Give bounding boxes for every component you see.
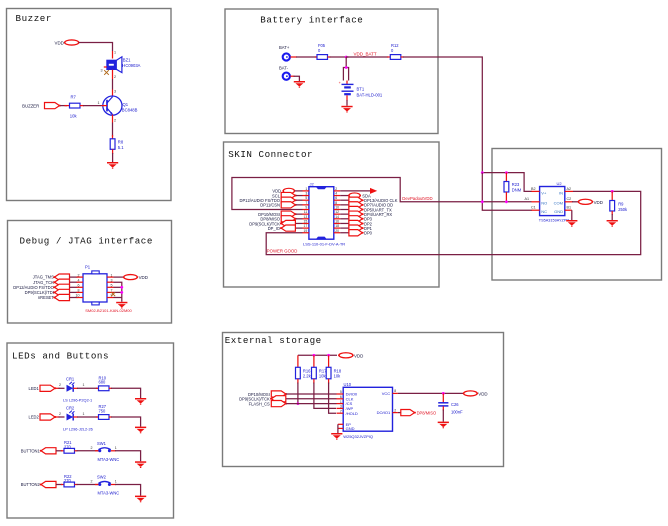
- svg-text:DevPadoutVDD: DevPadoutVDD: [402, 196, 432, 201]
- junction (rail R18): [327, 354, 330, 357]
- svg-text:DNM: DNM: [512, 187, 522, 192]
- resistor R18 10k: [326, 355, 342, 413]
- svg-text:10: 10: [76, 294, 80, 298]
- ground (JTAG): [116, 302, 127, 309]
- pin 2 of BZ1: [113, 70, 117, 79]
- svg-text:6: 6: [78, 284, 80, 288]
- port DP9(SCLK)/TDI with pin 8 of P1: [25, 289, 83, 296]
- wire R8 to ground: [112, 149, 114, 162]
- svg-text:U10: U10: [344, 382, 352, 387]
- port DP5/UART_TX (SKIN): [340, 206, 392, 212]
- part number label of U2: [539, 219, 570, 223]
- svg-text:2: 2: [78, 273, 80, 277]
- svg-text:B2: B2: [531, 187, 536, 191]
- pin 9 of J2: [303, 206, 309, 210]
- svg-text:680: 680: [99, 380, 107, 385]
- port DP0 (SKIN): [340, 230, 372, 236]
- svg-text:POWER GOOD: POWER GOOD: [267, 248, 298, 253]
- pin 3 of J2: [303, 192, 309, 196]
- pin 1 of P1: [107, 273, 114, 277]
- svg-text:1: 1: [340, 400, 342, 404]
- svg-text:SKIN Connector: SKIN Connector: [228, 149, 313, 160]
- pin 8 of U10 (VCC): [393, 389, 398, 393]
- pin 5 of P1: [107, 284, 114, 288]
- svg-text:5: 5: [340, 390, 342, 394]
- sheet box: External storage: [223, 333, 504, 467]
- port DP12/AUDIO FS/TDO with pin 6 of P1: [13, 284, 83, 291]
- sheet box: Battery interface: [225, 9, 438, 134]
- sheet box: Buzzer: [7, 9, 172, 201]
- port DP8/MISO (flash): [401, 410, 436, 416]
- no-ERC cross (JTAG pin9): [111, 292, 115, 296]
- port FLASH_CS (flash): [249, 401, 337, 407]
- svg-text:15: 15: [304, 219, 308, 223]
- LED CR2 LP L296-J2L2-26: [63, 405, 93, 431]
- svg-text:10k: 10k: [319, 374, 327, 379]
- svg-text:1: 1: [83, 412, 85, 416]
- resistor R16 2.2k: [296, 355, 312, 403]
- net label VDD_BATT: [354, 51, 377, 56]
- svg-text:3: 3: [101, 68, 103, 72]
- port nRESET with pin 10 of P1: [38, 294, 83, 301]
- port DP10/MOSI (flash): [248, 391, 337, 397]
- part number label of J2: [303, 241, 345, 246]
- port DP3 (SKIN): [340, 216, 372, 222]
- pin 4 of J2: [334, 192, 340, 196]
- svg-text:13: 13: [304, 215, 308, 219]
- wire junction to R12: [346, 56, 390, 58]
- svg-text:Battery interface: Battery interface: [260, 14, 363, 25]
- wire Q1 emitter to R8: [112, 123, 114, 139]
- wire R22 to SW2: [75, 480, 99, 485]
- resistor R23 DNM: [504, 173, 522, 202]
- svg-text:A2: A2: [567, 187, 572, 191]
- pin 14 of J2: [334, 215, 340, 219]
- port DP2 (SKIN): [340, 220, 372, 226]
- svg-text:8: 8: [335, 201, 337, 205]
- svg-text:LED2: LED2: [29, 415, 40, 420]
- port DP11/CSN (SKIN): [260, 202, 302, 208]
- svg-text:GND: GND: [346, 426, 355, 431]
- junction (JTAG pin7): [120, 291, 123, 294]
- wire VDD_BATT down to A1/C1 nets: [482, 173, 532, 211]
- junction (R9 top): [611, 190, 614, 193]
- sheet box: SKIN Connector: [224, 142, 440, 287]
- port LED2: [29, 414, 57, 420]
- svg-text:11: 11: [304, 210, 308, 214]
- wire DO/IO1 to port: [398, 412, 401, 414]
- svg-text:2: 2: [114, 75, 116, 79]
- pin 3 collector of Q1: [113, 90, 117, 97]
- svg-text:LEDs and Buttons: LEDs and Buttons: [12, 351, 109, 362]
- ground (LED2): [135, 427, 146, 434]
- power port VDD (flash): [463, 391, 488, 397]
- svg-text:2: 2: [59, 412, 61, 416]
- svg-text:TS5A3159AYZPR: TS5A3159AYZPR: [539, 219, 570, 223]
- svg-text:1: 1: [111, 273, 113, 277]
- wire BZ1 to Q1 collector: [112, 79, 114, 90]
- switch SW2 MTA3-WNC: [97, 475, 119, 496]
- ground (buzzer): [107, 162, 118, 169]
- switch SW1 MTA3-WNC: [97, 441, 119, 462]
- pin 6 of U10: [337, 395, 344, 399]
- svg-text:/HOLD: /HOLD: [346, 411, 358, 416]
- wire BAT- to ground: [290, 76, 299, 81]
- svg-text:DP_IO: DP_IO: [268, 226, 280, 231]
- pin C2 of U2 to VDD: [565, 197, 579, 202]
- net label DevPadoutVDD: [402, 196, 432, 201]
- svg-text:2: 2: [91, 446, 93, 450]
- wire R12 to analog switch box: [401, 57, 483, 173]
- svg-text:7: 7: [340, 409, 342, 413]
- flash chip U10 W25Q32JVZPIQ: [343, 382, 392, 431]
- pin 3 of BZ1 with no-ERC cross: [101, 67, 109, 75]
- svg-text:7: 7: [305, 201, 307, 205]
- port LED1: [29, 385, 57, 391]
- wire BAT+ to F05: [290, 56, 318, 58]
- power port VDD (buzzer): [55, 40, 80, 45]
- svg-text:U2: U2: [557, 181, 563, 186]
- svg-text:C1: C1: [531, 206, 536, 210]
- svg-text:10: 10: [335, 206, 339, 210]
- svg-text:1: 1: [115, 446, 117, 450]
- pin 6 of J2: [334, 196, 340, 200]
- svg-text:C26: C26: [451, 402, 459, 407]
- svg-text:BUTTON2: BUTTON2: [21, 482, 41, 487]
- svg-text:P1: P1: [85, 265, 91, 270]
- svg-text:MTA3-WNC: MTA3-WNC: [98, 457, 120, 462]
- svg-text:100nF: 100nF: [451, 410, 463, 415]
- wire VDD pull-up rail: [298, 354, 337, 356]
- pin 3 of P1: [107, 278, 114, 282]
- svg-text:Buzzer: Buzzer: [16, 13, 52, 24]
- svg-text:2: 2: [91, 480, 93, 484]
- svg-text:VDD: VDD: [354, 353, 363, 358]
- svg-text:BC848B: BC848B: [122, 108, 138, 113]
- power port VDD (analog switch): [578, 199, 603, 205]
- svg-text:17: 17: [304, 224, 308, 228]
- junction (rail R17): [313, 354, 316, 357]
- svg-text:External storage: External storage: [225, 335, 322, 346]
- connector P1: [83, 265, 107, 305]
- svg-text:9: 9: [305, 206, 307, 210]
- svg-text:270: 270: [64, 478, 72, 483]
- pin 18 of J2: [334, 224, 340, 228]
- pin 2 of J2: [334, 187, 340, 191]
- port DP13/AUDIO CLK (SKIN): [340, 197, 398, 203]
- svg-text:W25Q32JVZPIQ: W25Q32JVZPIQ: [343, 434, 373, 439]
- wire BUTTON1 to R21: [56, 450, 64, 452]
- svg-text:BZ1: BZ1: [123, 57, 131, 62]
- junction (JTAG pin5): [120, 286, 123, 289]
- junction (R23 top): [505, 171, 508, 174]
- connector BAT+: [279, 45, 290, 61]
- wire SW1 to ground: [111, 446, 141, 461]
- svg-text:250k: 250k: [618, 207, 628, 212]
- svg-text:SM02-B2101-KAN-02M00: SM02-B2101-KAN-02M00: [85, 308, 132, 313]
- pin 11 of J2: [303, 210, 309, 214]
- op IC U2 TS5A3159AYZPR analog switch: [540, 181, 565, 215]
- pin 19 of J2: [303, 229, 309, 233]
- svg-text:5: 5: [305, 196, 307, 200]
- port JTAG_TMS with pin 2 of P1: [33, 273, 83, 280]
- svg-text:3: 3: [340, 405, 342, 409]
- svg-text:DP8/MISO: DP8/MISO: [417, 410, 437, 415]
- port DP9(SCLK)/TCK (flash): [239, 396, 336, 402]
- wire pin1 to VDD (JTAG): [114, 276, 124, 278]
- svg-text:VDD: VDD: [594, 200, 603, 205]
- wire VDD_BATT to BT1: [343, 57, 348, 84]
- off-sheet arrow (pin 2 of J2): [340, 188, 377, 194]
- junction (FLASH_CS pull-up): [297, 402, 300, 405]
- connector J2 LSS-110-01-F-DV-A-TR: [309, 181, 334, 239]
- svg-text:Q1: Q1: [123, 102, 129, 107]
- part number label of P1: [85, 308, 132, 313]
- connector BAT-: [279, 66, 290, 80]
- fuse F05 0: [317, 43, 328, 59]
- pin 5 of U10: [337, 390, 344, 394]
- svg-text:2: 2: [59, 383, 61, 387]
- port DP_IO (SKIN): [268, 225, 303, 231]
- power port VDD (pull-ups): [338, 353, 363, 359]
- svg-text:VCC: VCC: [382, 391, 391, 396]
- svg-text:18: 18: [335, 224, 339, 228]
- junction (A1 net): [481, 200, 484, 203]
- svg-text:1: 1: [305, 187, 307, 191]
- svg-text:2: 2: [335, 187, 337, 191]
- junction (C26 top): [442, 392, 445, 395]
- pin 16 of J2: [334, 219, 340, 223]
- port SDA (SKIN): [340, 193, 371, 198]
- pin 10 of J2: [334, 206, 340, 210]
- pin B1 of U2 to ground: [565, 206, 572, 220]
- pin 2 emitter of Q1: [113, 115, 117, 123]
- svg-text:MTA3-WNC: MTA3-WNC: [98, 491, 120, 496]
- svg-text:BT1: BT1: [357, 86, 365, 91]
- wire R7 to Q1 base: [80, 105, 102, 107]
- svg-text:R9: R9: [618, 201, 624, 206]
- svg-text:12: 12: [335, 210, 339, 214]
- port DP1 (SKIN): [340, 225, 372, 231]
- ground (U2): [566, 220, 577, 227]
- port BUZZER: [22, 103, 61, 109]
- wire JTAG ground bus: [114, 282, 122, 302]
- battery BT1 BAT-HLD-001: [339, 81, 383, 98]
- pin 2 of U10 (DO/IO1): [393, 408, 398, 412]
- port JTAG_TCK with pin 4 of P1: [33, 278, 83, 285]
- svg-text:B1: B1: [567, 206, 572, 210]
- svg-text:1: 1: [114, 51, 116, 55]
- svg-text:270: 270: [64, 444, 72, 449]
- ground (R9): [607, 220, 618, 227]
- svg-text:3: 3: [111, 278, 113, 282]
- svg-text:VDD: VDD: [478, 391, 487, 396]
- pin 1 base of Q1: [97, 101, 107, 106]
- svg-text:3: 3: [114, 90, 116, 94]
- pin 1 of U10: [337, 400, 344, 404]
- resistor R27 750: [99, 404, 110, 419]
- svg-text:5.1: 5.1: [118, 145, 124, 150]
- svg-text:C2: C2: [567, 197, 572, 201]
- pin 1 of J2: [303, 187, 309, 191]
- wire R10 to ground: [109, 388, 141, 398]
- wire LED1 to CR1: [56, 383, 65, 388]
- ground (U10): [331, 433, 342, 440]
- port DP8/MISO (SKIN): [260, 216, 302, 222]
- pin 15 of J2: [303, 219, 309, 223]
- svg-text:19: 19: [304, 229, 308, 233]
- wire BT1 to ground: [346, 95, 348, 106]
- svg-text:IN: IN: [559, 191, 563, 196]
- port BUTTON2: [21, 481, 56, 487]
- svg-text:6: 6: [340, 395, 342, 399]
- svg-text:V+: V+: [541, 191, 547, 196]
- svg-text:R7: R7: [71, 94, 77, 99]
- wire CR2 to R27: [73, 412, 98, 417]
- svg-text:FLASH_CS: FLASH_CS: [249, 401, 270, 406]
- junction (BT1 feed): [345, 66, 348, 69]
- svg-text:LP L296-J2L2-26: LP L296-J2L2-26: [63, 427, 93, 432]
- svg-text:GND: GND: [554, 209, 563, 214]
- svg-text:8: 8: [394, 389, 396, 393]
- transistor Q1 BC848B: [103, 96, 138, 115]
- svg-text:LSS-110-01-F-DV-A-TR: LSS-110-01-F-DV-A-TR: [303, 241, 345, 246]
- svg-text:A1: A1: [525, 197, 530, 201]
- pin 7 of U10: [337, 409, 344, 413]
- svg-text:BUZZER: BUZZER: [22, 103, 39, 108]
- wire R21 to SW1: [75, 446, 99, 451]
- svg-text:750: 750: [99, 408, 107, 413]
- wire LED2 to CR2: [56, 412, 65, 417]
- svg-text:20: 20: [335, 229, 339, 233]
- resistor R12 0: [390, 43, 401, 59]
- svg-text:nRESET: nRESET: [38, 295, 54, 300]
- svg-text:DP11/CSN: DP11/CSN: [260, 203, 280, 208]
- pin A2 of U2: [565, 187, 573, 192]
- svg-text:DO/IO1: DO/IO1: [377, 410, 391, 415]
- wire BUZZER to R7: [60, 105, 69, 107]
- junction (R23 bottom): [505, 200, 508, 203]
- svg-text:5: 5: [111, 284, 113, 288]
- svg-text:Debug / JTAG interface: Debug / JTAG interface: [20, 235, 153, 246]
- wire VCC to VDD: [398, 392, 464, 394]
- pins EP GND of U10 to ground: [338, 424, 343, 433]
- power port VDD (JTAG): [123, 275, 148, 280]
- sheet box: Debug / JTAG interface: [8, 221, 172, 324]
- port DP10/MOSI (SKIN): [258, 211, 302, 217]
- sheet box: LEDs and Buttons: [7, 343, 174, 518]
- svg-text:14: 14: [335, 215, 339, 219]
- pin 7 of J2: [303, 201, 309, 205]
- capacitor C26 100nF: [438, 393, 463, 421]
- junction (VDD_BATT corner): [481, 171, 484, 174]
- svg-text:COM: COM: [554, 200, 563, 205]
- svg-text:SW2: SW2: [97, 475, 107, 480]
- ground (BUTTON1): [135, 461, 146, 468]
- svg-text:8: 8: [78, 289, 80, 293]
- wire DevPadoutVDD loop (pin 9 to analog switch): [232, 178, 532, 210]
- port DP4/UART_RX (SKIN): [340, 211, 392, 217]
- svg-text:2: 2: [394, 408, 396, 412]
- svg-text:1: 1: [83, 383, 85, 387]
- svg-text:CR1: CR1: [66, 377, 75, 382]
- svg-text:10k: 10k: [70, 114, 78, 119]
- pin 3 of U10: [337, 405, 344, 409]
- pin 1 of BZ1: [113, 51, 117, 59]
- wire VDD to buzzer pin 1: [79, 43, 113, 52]
- net label POWER GOOD: [267, 248, 298, 253]
- wire BUTTON2 to R22: [56, 484, 64, 486]
- port DP12/AUDIO FS/TDO (SKIN): [240, 197, 303, 203]
- junction (VDD_BATT): [345, 56, 348, 59]
- port BUTTON1: [21, 448, 56, 454]
- ground (BAT-): [294, 81, 305, 88]
- svg-text:1: 1: [97, 101, 99, 105]
- svg-text:16: 16: [335, 219, 339, 223]
- svg-text:HC0903A: HC0903A: [122, 63, 140, 68]
- svg-text:6: 6: [335, 196, 337, 200]
- svg-text:BAT-: BAT-: [279, 66, 289, 71]
- pin 20 of J2: [334, 229, 340, 233]
- resistor R7 10k: [70, 94, 81, 118]
- pin 17 of J2: [303, 224, 309, 228]
- svg-text:4: 4: [335, 192, 337, 196]
- svg-text:LED1: LED1: [29, 386, 40, 391]
- svg-text:4: 4: [78, 278, 80, 282]
- svg-text:1: 1: [115, 480, 117, 484]
- ground (C26): [438, 422, 449, 429]
- svg-text:LS L296-P2Q2-1: LS L296-P2Q2-1: [63, 398, 92, 403]
- pin A1 of U2: [525, 197, 540, 202]
- pin C1 of U2: [531, 206, 540, 211]
- pin 5 of J2: [303, 196, 309, 200]
- ground (BUTTON2): [135, 496, 146, 503]
- svg-text:VDD_BATT: VDD_BATT: [354, 51, 377, 56]
- buzzer BZ1 HC0903A: [107, 57, 141, 73]
- svg-text:SW1: SW1: [97, 441, 107, 446]
- pin 12 of J2: [334, 210, 340, 214]
- ground (BT1): [341, 106, 352, 113]
- port SCL (SKIN): [272, 192, 302, 198]
- LED CR1 LS L296-P2Q2-1: [63, 377, 92, 403]
- port DP9(SCLK)/TCK (SKIN): [249, 220, 302, 226]
- part number label of U10: [343, 434, 373, 439]
- wire F05 to junction VDD_BATT: [328, 56, 349, 58]
- svg-text:CR2: CR2: [66, 405, 75, 410]
- pin 8 of J2: [334, 201, 340, 205]
- pin B2 of U2: [531, 187, 540, 192]
- resistor R9 250k pulldown: [610, 191, 628, 220]
- svg-text:NC: NC: [541, 209, 547, 214]
- wire POWER GOOD (pin 19 to analog switch IN): [266, 191, 641, 254]
- pin 7 of P1: [107, 289, 114, 293]
- resistor R10 680: [99, 375, 110, 390]
- svg-text:VDD: VDD: [55, 40, 64, 45]
- svg-text:3: 3: [305, 192, 307, 196]
- resistor R17 10k: [312, 355, 337, 408]
- svg-text:2: 2: [114, 119, 116, 123]
- wire R27 to ground: [109, 417, 141, 427]
- pin 13 of J2: [303, 215, 309, 219]
- resistor R22 270: [64, 474, 75, 487]
- svg-text:VDD: VDD: [139, 275, 148, 280]
- svg-text:BUTTON1: BUTTON1: [21, 448, 41, 453]
- svg-text:NO: NO: [541, 200, 547, 205]
- power port VDD (SKIN): [272, 188, 302, 193]
- svg-text:DP0: DP0: [364, 231, 373, 236]
- svg-text:10k: 10k: [334, 374, 342, 379]
- wire CR1 to R10: [73, 383, 98, 388]
